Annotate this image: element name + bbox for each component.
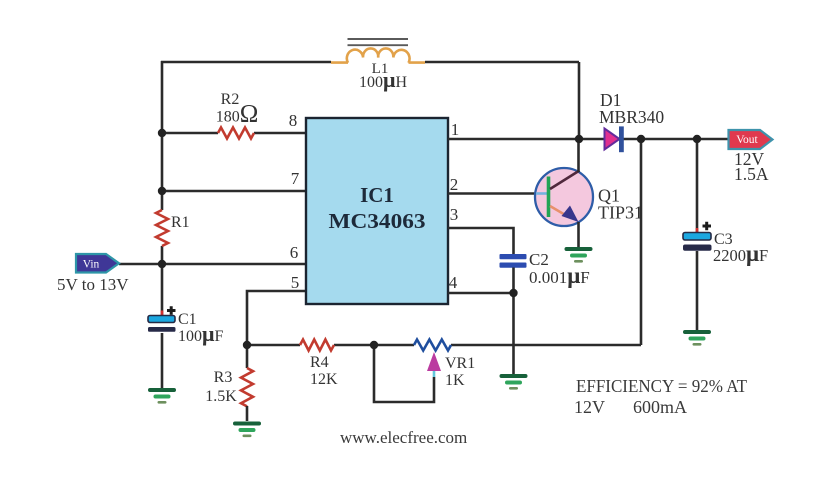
junction dot wiper node — [370, 341, 378, 349]
wire feedback vertical — [640, 139, 643, 345]
svg-text:1.5A: 1.5A — [734, 164, 769, 184]
wire pin 6 / Vin — [119, 263, 306, 266]
svg-text:R4: R4 — [310, 354, 329, 371]
svg-text:3: 3 — [450, 205, 459, 224]
svg-text:IC1: IC1 — [360, 183, 394, 207]
svg-text:12V: 12V — [574, 397, 605, 417]
ground C1 — [148, 388, 176, 404]
junction dot feedback top — [637, 135, 645, 143]
svg-text:C1: C1 — [178, 311, 197, 328]
wire feedback to R3 — [246, 345, 249, 368]
svg-text:1K: 1K — [445, 372, 465, 389]
diode D1 — [605, 126, 624, 152]
svg-text:R2: R2 — [221, 91, 240, 108]
IC U1 MC34063 — [306, 118, 448, 304]
junction dot collector node — [575, 135, 583, 143]
svg-text:5V to 13V: 5V to 13V — [57, 275, 129, 294]
wire top rail — [161, 61, 579, 64]
svg-text:6: 6 — [290, 243, 299, 262]
svg-text:EFFICIENCY = 92% AT: EFFICIENCY = 92% AT — [576, 376, 747, 396]
svg-text:1: 1 — [451, 120, 460, 139]
inductor L1 — [331, 48, 425, 62]
svg-text:2: 2 — [450, 175, 459, 194]
resistor R2 — [218, 128, 254, 139]
svg-text:C2: C2 — [529, 250, 549, 269]
wire pin 2 to Q1 base — [448, 192, 536, 195]
ground R3 — [233, 422, 261, 438]
wire pin 5 — [247, 291, 306, 345]
svg-text:VR1: VR1 — [445, 355, 475, 372]
capacitor C2 — [500, 254, 527, 268]
svg-text:R1: R1 — [171, 214, 190, 231]
junction dot C2 node — [509, 289, 517, 297]
wire Q1 collector — [577, 139, 580, 172]
svg-text:1.5K: 1.5K — [205, 388, 237, 405]
wire output rail pin 1 — [448, 138, 728, 141]
wire pin 7 — [162, 190, 306, 193]
svg-text:4: 4 — [449, 273, 458, 292]
svg-text:8: 8 — [289, 111, 298, 130]
wire left rail vertical — [161, 61, 164, 388]
transistor Q1 — [535, 168, 593, 226]
capacitor C3 — [683, 233, 712, 251]
input port Vin — [76, 254, 119, 273]
svg-text:TIP31: TIP31 — [598, 203, 643, 223]
resistor R4 — [300, 340, 334, 351]
wire C3 branch — [696, 139, 699, 330]
svg-text:5: 5 — [291, 273, 300, 292]
inductor L1 core lines — [348, 39, 409, 45]
svg-text:600mA: 600mA — [633, 397, 687, 417]
junction dot pin8 rail — [158, 129, 166, 137]
polarity + C3 — [703, 222, 712, 231]
wire C2 to ground — [512, 268, 515, 375]
ground C3 — [683, 330, 711, 346]
output port Vout — [729, 130, 773, 149]
wire pin 4 — [448, 292, 514, 295]
wire feedback rail — [247, 344, 641, 347]
ground Q1 emitter — [565, 247, 593, 263]
polarity red tick C3 — [696, 228, 699, 233]
resistor R1 — [156, 210, 168, 246]
svg-text:7: 7 — [291, 169, 300, 188]
svg-text:www.elecfree.com: www.elecfree.com — [340, 428, 467, 447]
wire pin 8 — [162, 132, 306, 135]
wire R3 to ground — [246, 406, 249, 421]
resistor R3 — [241, 368, 253, 406]
svg-text:Vin: Vin — [83, 259, 100, 271]
svg-text:MC34063: MC34063 — [329, 209, 426, 233]
svg-text:MBR340: MBR340 — [599, 107, 664, 127]
svg-text:12K: 12K — [310, 371, 338, 388]
wire Q1 emitter — [577, 222, 580, 247]
junction dot pin7 rail — [158, 187, 166, 195]
ground C2 — [500, 374, 528, 390]
svg-text:Vout: Vout — [736, 134, 758, 146]
junction dot Vin node — [158, 260, 166, 268]
potentiometer VR1 — [414, 340, 451, 378]
capacitor C1 — [148, 316, 176, 332]
wire top right drop — [578, 62, 581, 139]
wire pin 3 to C2 — [448, 228, 514, 254]
wire VR1 wiper loop — [374, 345, 434, 402]
polarity + C1 — [167, 306, 176, 315]
junction dot feedback left — [243, 341, 251, 349]
svg-text:R3: R3 — [214, 369, 233, 386]
polarity red tick C1 — [161, 311, 164, 316]
junction dot C3 node — [693, 135, 701, 143]
